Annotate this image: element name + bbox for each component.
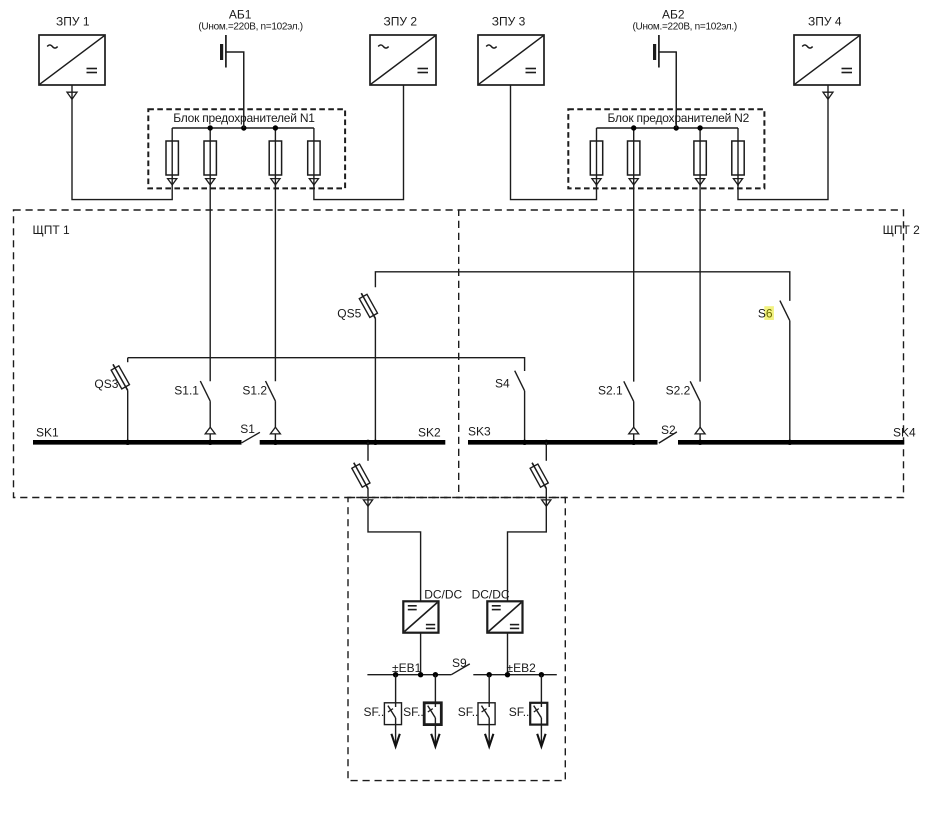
- circuit breaker SF2 box: [424, 703, 441, 725]
- fuse-disconnector FU-SK2 blade: [354, 463, 368, 489]
- circuit breaker SF4 feed wire: [540, 675, 542, 707]
- fuse-switch QS3 wire to bus SK1: [127, 390, 129, 442]
- switch S1.1 blade: [200, 381, 210, 401]
- wire charger ЗПУ 2 to fuse F4 of block N1: [314, 85, 404, 200]
- converter DC/DC 1 box: [403, 601, 438, 632]
- circuit breaker SF4 box: [530, 703, 547, 725]
- charger ЗПУ 3 box: [478, 35, 544, 85]
- svg-text:АБ1: АБ1: [229, 8, 252, 22]
- switch S2.2 lower wire: [699, 401, 701, 442]
- circuit breaker SF4 blade: [534, 706, 542, 718]
- circuit breaker SF2 feed wire: [434, 675, 436, 707]
- circuit breaker SF3 outgoing wire: [488, 718, 490, 746]
- connector arrow below ЗПУ 1: [67, 92, 77, 99]
- wire fuse below SK3 to DC/DC2: [508, 489, 547, 602]
- busbar SK2: [260, 440, 446, 445]
- circuit breaker SF3 blade: [482, 706, 490, 718]
- fuse-disconnector FU-SK2 fuse body: [352, 464, 370, 487]
- svg-text:ЗПУ 2: ЗПУ 2: [384, 15, 418, 29]
- load arrow SF2: [431, 734, 439, 747]
- switch S1.2 lower wire: [274, 401, 276, 442]
- circuit breaker SF2 blade: [428, 706, 436, 718]
- switch S2.1 blade: [624, 381, 634, 401]
- svg-text:SK2: SK2: [418, 426, 441, 440]
- junction DCDC2/EB2: [505, 672, 510, 677]
- fuse-disconnector FU-SK3 blade: [532, 463, 546, 489]
- wire DC/DC2 to bus EB2: [507, 633, 509, 675]
- fuse F2 of Блок предохранителей N1: [209, 128, 211, 186]
- busbar SK1: [33, 440, 242, 445]
- wire fuse N1-F3 to switch S1.2: [274, 185, 276, 381]
- circuit breaker SF4 outgoing wire: [540, 718, 542, 746]
- wire tie line QS3 to S4: [128, 358, 525, 371]
- connector arrow below fuse F1 of Блок предохранителей N1: [168, 179, 177, 185]
- wire tie line QS5 to S6: [375, 272, 789, 301]
- junction SF2/EB1: [433, 672, 438, 677]
- junction on Блок предохранителей N1 bus: [208, 125, 213, 130]
- wire charger ЗПУ 3 to fuse F1 of block N2: [511, 85, 597, 200]
- svg-text:SK4: SK4: [893, 426, 916, 440]
- circuit breaker SF3 feed wire: [488, 675, 490, 707]
- connector arrow below fuse F3 of Блок предохранителей N1: [271, 179, 280, 185]
- bus EB2: [473, 674, 557, 676]
- battery АБ2 short electrode: [653, 44, 656, 60]
- connector arrow below fuse F2 of Блок предохранителей N1: [206, 179, 215, 185]
- switch S6 blade: [780, 301, 790, 321]
- connector arrow below ЗПУ 4: [823, 92, 833, 99]
- circuit breaker SF1 feed wire: [395, 675, 397, 707]
- fuse F4 of Блок предохранителей N1: [313, 128, 315, 186]
- switch S1.1 lower wire: [209, 401, 211, 442]
- svg-text:S9: S9: [452, 656, 467, 670]
- load arrow SF1: [391, 734, 399, 747]
- junction S2.2/SK4: [697, 440, 702, 445]
- converter DC/DC 2 box: [487, 601, 522, 632]
- connector arrow below fuse F3 of Блок предохранителей N2: [696, 179, 705, 185]
- svg-text:QS5: QS5: [337, 306, 361, 320]
- wire battery АБ2 to block N2: [659, 52, 676, 128]
- junction feeder/SK2: [365, 440, 370, 445]
- battery АБ2 long electrode: [658, 35, 660, 68]
- svg-text:S2.1: S2.1: [598, 384, 623, 398]
- svg-text:ЗПУ 3: ЗПУ 3: [492, 15, 526, 29]
- battery feed wire into Блок предохранителей N1: [243, 52, 245, 128]
- junction S6/SK4: [787, 440, 792, 445]
- bus tie switch S2 blade: [659, 432, 677, 443]
- fuse block box Блок предохранителей N1: [148, 109, 345, 188]
- load arrow SF3: [485, 734, 493, 747]
- wire DC/DC1 to bus EB1: [420, 633, 422, 675]
- fuse F4 of Блок предохранителей N2: [737, 128, 739, 186]
- charger ЗПУ 1 box: [39, 35, 105, 85]
- fuse F3 of Блок предохранителей N1: [274, 128, 276, 186]
- junction SF3/EB2: [487, 672, 492, 677]
- svg-text:(Uном.=220В, n=102эл.): (Uном.=220В, n=102эл.): [633, 22, 737, 33]
- switch S2.2 blade: [690, 381, 700, 401]
- switch S6 lower wire: [789, 321, 791, 443]
- fuse F1 of Блок предохранителей N1: [171, 128, 173, 186]
- svg-text:(Uном.=220В, n=102эл.): (Uном.=220В, n=102эл.): [198, 22, 302, 33]
- svg-text:S6: S6: [758, 307, 773, 321]
- switch S2.1 lower wire: [633, 401, 635, 442]
- junction on Блок предохранителей N1 bus: [273, 125, 278, 130]
- cabinet ЩПТ 2 box: [459, 210, 904, 498]
- wire fuse N2-F2 to switch S2.1: [633, 185, 635, 382]
- connector arrow below fuse F1 of Блок предохранителей N2: [592, 179, 601, 185]
- junction QS3/SK1: [125, 440, 130, 445]
- svg-text:SK1: SK1: [36, 426, 59, 440]
- junction SF1/EB1: [393, 672, 398, 677]
- junction on Блок предохранителей N1 bus: [241, 125, 246, 130]
- fuse-disconnector QS3 fuse body: [111, 366, 129, 389]
- wire fuse N2-F3 to switch S2.2: [699, 185, 701, 382]
- battery feed wire into Блок предохранителей N2: [675, 52, 677, 128]
- circuit breaker SF2 outgoing wire: [434, 718, 436, 746]
- svg-text:ЗПУ 4: ЗПУ 4: [808, 15, 842, 29]
- connector arrow below fuse F4 of Блок предохранителей N1: [309, 179, 318, 185]
- fuse-disconnector QS5 fuse body: [359, 294, 377, 317]
- switch S9 blade: [451, 664, 470, 675]
- junction on Блок предохранителей N2 bus: [674, 125, 679, 130]
- svg-text:S1: S1: [240, 422, 255, 436]
- svg-text:DC/DC: DC/DC: [472, 588, 510, 602]
- svg-text:ЗПУ 1: ЗПУ 1: [56, 15, 90, 29]
- fuse block box Блок предохранителей N2: [568, 109, 764, 188]
- svg-text:S2.2: S2.2: [666, 384, 691, 398]
- junction feeder/SK3: [544, 440, 549, 445]
- fuse-disconnector FU-SK3 fuse body: [530, 464, 548, 487]
- fuse F3 of Блок предохранителей N2: [699, 128, 701, 186]
- wire fuse N1-F2 to switch S1.1: [209, 185, 211, 381]
- svg-text:DC/DC: DC/DC: [424, 588, 462, 602]
- feeder fuse below SK2 upper wire: [367, 442, 369, 461]
- svg-text:S4: S4: [495, 377, 510, 391]
- junction on Блок предохранителей N2 bus: [697, 125, 702, 130]
- svg-text:±EB2: ±EB2: [507, 661, 537, 675]
- svg-text:ЩПТ 2: ЩПТ 2: [883, 223, 921, 237]
- junction QS5/SK2: [373, 440, 378, 445]
- fuse F1 of Блок предохранителей N2: [596, 128, 598, 186]
- lower cabinet box: [348, 498, 565, 781]
- fuse block Блок предохранителей N2 top bus wire: [597, 127, 739, 129]
- busbar SK3: [468, 440, 658, 445]
- svg-text:ЩПТ 1: ЩПТ 1: [33, 223, 71, 237]
- switch S4 lower wire: [524, 391, 526, 443]
- feeder fuse below SK3 upper wire: [545, 442, 547, 461]
- junction SF4/EB2: [539, 672, 544, 677]
- fuse-disconnector QS3 blade: [113, 364, 128, 390]
- wire charger ЗПУ 4 to fuse F4 of block N2: [738, 85, 828, 200]
- bus tie switch S1 blade: [242, 432, 260, 443]
- svg-text:SF..: SF..: [509, 705, 530, 719]
- switch S1.2 blade: [266, 381, 276, 401]
- circuit breaker SF3 box: [478, 703, 495, 725]
- junction S2.1/SK3: [631, 440, 636, 445]
- fuse F2 of Блок предохранителей N2: [633, 128, 635, 186]
- connector arrow above bus at S1.2: [270, 427, 280, 434]
- fuse-switch QS5 wire to bus SK2: [374, 319, 376, 443]
- wire battery АБ1 to block N1: [226, 52, 244, 128]
- bus EB1: [367, 674, 451, 676]
- cabinet ЩПТ 1 box: [14, 210, 459, 498]
- junction S1.2/SK2: [273, 440, 278, 445]
- circuit breaker SF1 outgoing wire: [395, 718, 397, 746]
- fuse-switch QS3 top stub: [127, 358, 129, 363]
- load arrow SF4: [537, 734, 545, 747]
- connector arrow below fuse F4 of Блок предохранителей N2: [733, 179, 742, 185]
- svg-text:QS3: QS3: [94, 377, 118, 391]
- junction S4/SK3: [522, 440, 527, 445]
- battery АБ1 short electrode: [220, 44, 223, 60]
- connector arrow below SK2 feeder: [363, 500, 372, 506]
- svg-text:SF..: SF..: [403, 705, 424, 719]
- svg-text:SF..: SF..: [458, 705, 479, 719]
- junction DCDC1/EB1: [418, 672, 423, 677]
- charger ЗПУ 2 box: [370, 35, 436, 85]
- connector arrow above bus at S1.1: [205, 427, 215, 434]
- highlight behind S6 digit: [764, 306, 774, 320]
- switch S4 blade: [515, 371, 525, 391]
- circuit breaker SF1 box: [384, 703, 401, 725]
- svg-text:Блок предохранителей N2: Блок предохранителей N2: [608, 111, 750, 125]
- battery АБ1 long electrode: [225, 35, 227, 68]
- svg-text:S1.1: S1.1: [174, 384, 199, 398]
- circuit breaker SF1 blade: [388, 706, 396, 718]
- svg-text:АБ2: АБ2: [662, 8, 685, 22]
- fuse-disconnector QS5 blade: [361, 293, 375, 318]
- charger ЗПУ 4 box: [794, 35, 860, 85]
- connector arrow above bus at S2.2: [695, 427, 705, 434]
- junction S1.1/SK1: [208, 440, 213, 445]
- connector arrow above bus at S2.1: [629, 427, 639, 434]
- svg-text:S2: S2: [661, 423, 676, 437]
- wire fuse below SK2 to DC/DC1: [368, 489, 421, 602]
- connector arrow below fuse F2 of Блок предохранителей N2: [629, 179, 638, 185]
- svg-text:SF..: SF..: [364, 705, 385, 719]
- wire charger ЗПУ 1 to fuse F1 of block N1: [72, 85, 172, 200]
- svg-text:S1.2: S1.2: [242, 384, 267, 398]
- svg-text:SK3: SK3: [468, 424, 491, 438]
- busbar SK4: [678, 440, 904, 445]
- junction on Блок предохранителей N2 bus: [631, 125, 636, 130]
- fuse block Блок предохранителей N1 top bus wire: [172, 127, 314, 129]
- connector arrow below SK3 feeder: [542, 500, 551, 506]
